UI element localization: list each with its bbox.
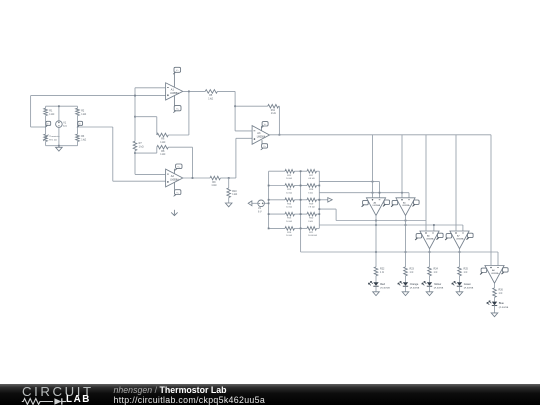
svg-text:A1: A1 — [171, 89, 175, 92]
svg-text:6 V: 6 V — [258, 211, 262, 214]
svg-text:A6: A6 — [427, 235, 430, 238]
svg-text:6 V: 6 V — [63, 125, 67, 128]
svg-text:R16: R16 — [287, 232, 292, 234]
svg-text:7.8 kΩ: 7.8 kΩ — [308, 207, 315, 209]
svg-text:A4: A4 — [373, 201, 376, 204]
svg-text:1 kΩ: 1 kΩ — [271, 112, 276, 115]
svg-text:10 kΩ: 10 kΩ — [286, 235, 292, 237]
svg-text:R17: R17 — [309, 175, 314, 177]
svg-text:10 kΩ: 10 kΩ — [286, 221, 292, 223]
svg-text:R20: R20 — [309, 218, 314, 220]
svg-text:A2: A2 — [171, 175, 175, 178]
svg-text:(7L3070B: (7L3070B — [410, 287, 420, 289]
svg-text:1 kΩ: 1 kΩ — [139, 146, 144, 149]
svg-text:(7L3070B: (7L3070B — [464, 287, 474, 289]
svg-text:10 kΩ: 10 kΩ — [286, 178, 292, 180]
svg-text:1 kΩ: 1 kΩ — [232, 193, 237, 196]
svg-text:R18: R18 — [309, 189, 314, 191]
svg-text:Yellow: Yellow — [434, 282, 442, 286]
svg-text:1 Ω: 1 Ω — [410, 271, 414, 274]
svg-text:Green: Green — [464, 282, 472, 286]
svg-text:R13: R13 — [287, 189, 292, 191]
svg-text:Red: Red — [380, 282, 385, 286]
svg-text:LM358A: LM358A — [456, 237, 464, 240]
svg-text:R12: R12 — [287, 175, 292, 177]
svg-text:(7L3070B: (7L3070B — [380, 287, 390, 289]
svg-text:1 kΩ: 1 kΩ — [81, 138, 86, 141]
svg-text:A5: A5 — [403, 201, 406, 204]
svg-text:R≈1 kΩ: R≈1 kΩ — [49, 138, 57, 141]
svg-text:A3: A3 — [257, 132, 261, 135]
svg-text:LM358A: LM358A — [170, 179, 179, 182]
svg-text:6 kΩ: 6 kΩ — [308, 192, 313, 194]
svg-text:LM358A: LM358A — [491, 272, 499, 275]
svg-text:Thermistor: Thermistor — [49, 135, 60, 138]
svg-text:1 Ω: 1 Ω — [434, 271, 438, 274]
svg-text:(7L3070B: (7L3070B — [499, 307, 509, 309]
svg-text:R14: R14 — [287, 203, 292, 205]
svg-text:(7L3070B: (7L3070B — [434, 287, 444, 289]
svg-text:LM358A: LM358A — [402, 204, 410, 207]
svg-text:10 kΩ: 10 kΩ — [286, 207, 292, 209]
svg-text:1 kΩ: 1 kΩ — [160, 141, 165, 144]
svg-text:A8: A8 — [492, 269, 495, 272]
svg-text:10 kΩ: 10 kΩ — [286, 192, 292, 194]
svg-text:R19: R19 — [309, 203, 314, 205]
svg-text:Orange: Orange — [410, 282, 419, 286]
svg-text:1 kΩ: 1 kΩ — [211, 184, 216, 187]
svg-text:Blue: Blue — [499, 301, 505, 305]
svg-text:1 kΩ: 1 kΩ — [208, 98, 213, 101]
svg-text:4.8 kΩ: 4.8 kΩ — [308, 178, 315, 180]
svg-text:1 kΩ: 1 kΩ — [160, 153, 165, 156]
svg-text:1 kΩ: 1 kΩ — [81, 113, 86, 116]
svg-text:1 Ω: 1 Ω — [380, 271, 384, 274]
svg-text:1 Ω: 1 Ω — [464, 271, 468, 274]
svg-text:16.66 kΩ: 16.66 kΩ — [308, 235, 317, 237]
svg-text:LM358A: LM358A — [426, 237, 434, 240]
svg-text:R15: R15 — [287, 218, 292, 220]
svg-text:LM358A: LM358A — [170, 92, 179, 95]
svg-text:1 kΩ: 1 kΩ — [49, 113, 54, 116]
svg-text:LM358A: LM358A — [257, 136, 266, 139]
svg-text:A7: A7 — [457, 235, 460, 238]
svg-text:R21: R21 — [309, 232, 314, 234]
svg-text:1 Ω: 1 Ω — [499, 292, 503, 295]
svg-text:9 kΩ: 9 kΩ — [308, 221, 313, 223]
svg-text:LM358A: LM358A — [373, 204, 381, 207]
